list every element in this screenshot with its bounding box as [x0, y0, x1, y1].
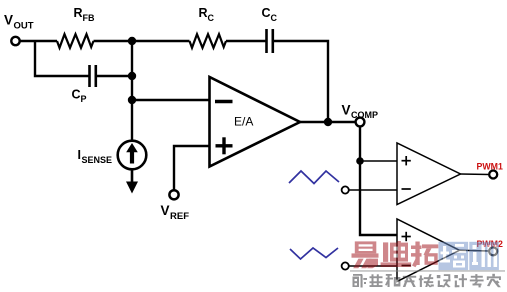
wire VREF to noninverting input — [174, 146, 209, 190]
svg-text:OUT: OUT — [14, 21, 34, 32]
terminal ramp2 — [342, 262, 349, 269]
svg-text:SENSE: SENSE — [82, 155, 113, 165]
wire — [97, 75, 132, 77]
ramp waveform 1 — [289, 171, 339, 184]
svg-text:P: P — [81, 94, 87, 104]
resistor RFB — [57, 34, 94, 48]
capacitor CC — [265, 29, 268, 53]
svg-text:V: V — [161, 203, 170, 218]
wire — [94, 40, 190, 42]
wire VCOMP bus down — [360, 127, 397, 235]
svg-text:C: C — [208, 13, 215, 23]
ground arrow below ISENSE — [131, 170, 134, 183]
svg-text:V: V — [342, 103, 351, 118]
terminal VCOMP — [356, 118, 365, 127]
watermark subtitle — [353, 274, 501, 288]
terminal ramp1 — [342, 186, 349, 193]
svg-text:COMP: COMP — [351, 110, 378, 120]
wire E/A output — [300, 121, 355, 123]
svg-text:I: I — [78, 148, 81, 162]
svg-text:PWM1: PWM1 — [477, 162, 503, 172]
ramp waveform 2 — [290, 248, 338, 259]
terminal PWM1 — [489, 171, 497, 179]
wire — [20, 40, 57, 42]
terminal VREF — [169, 190, 178, 199]
svg-text:R: R — [199, 6, 208, 20]
svg-text:C: C — [72, 87, 81, 101]
capacitor CP — [88, 65, 91, 87]
node comparator1 tap — [356, 157, 364, 165]
wire comparator1 output — [461, 173, 490, 176]
current source ISENSE — [118, 141, 147, 170]
node CP junction — [128, 72, 136, 80]
resistor RC — [190, 34, 227, 48]
wire to E/A inverting input — [132, 99, 209, 101]
comparator U3 — [397, 219, 460, 282]
svg-text:REF: REF — [170, 211, 189, 222]
comparator U2 — [397, 143, 461, 205]
wire ramp2 to comparator2 - — [349, 265, 397, 267]
svg-text:R: R — [74, 6, 83, 20]
node VCOMP junction — [324, 118, 332, 126]
watermark char di — [381, 241, 412, 267]
terminal VOUT — [11, 37, 19, 45]
watermark char yi — [352, 241, 379, 268]
svg-text:E/A: E/A — [234, 115, 253, 129]
node RFB junction — [128, 37, 136, 45]
svg-text:C: C — [262, 6, 271, 20]
svg-text:C: C — [271, 13, 278, 23]
watermark logo — [350, 241, 505, 288]
op-amp U1 E/A — [210, 77, 301, 167]
wire junction column — [131, 41, 133, 141]
wire CP branch — [35, 41, 89, 76]
wire ramp1 to comparator1 - — [349, 189, 397, 191]
wire to comparator1 + — [360, 160, 397, 162]
watermark rule — [350, 270, 505, 272]
wire — [226, 40, 266, 42]
terminal PWM2 — [489, 247, 497, 255]
watermark char tuo — [411, 242, 438, 268]
watermark char pei block — [439, 242, 469, 271]
watermark char xun block — [469, 242, 499, 271]
svg-text:FB: FB — [83, 13, 95, 23]
wire — [274, 41, 328, 122]
node inverting input junction — [128, 96, 136, 104]
wire comparator2 output — [460, 249, 490, 252]
svg-text:V: V — [4, 13, 13, 28]
